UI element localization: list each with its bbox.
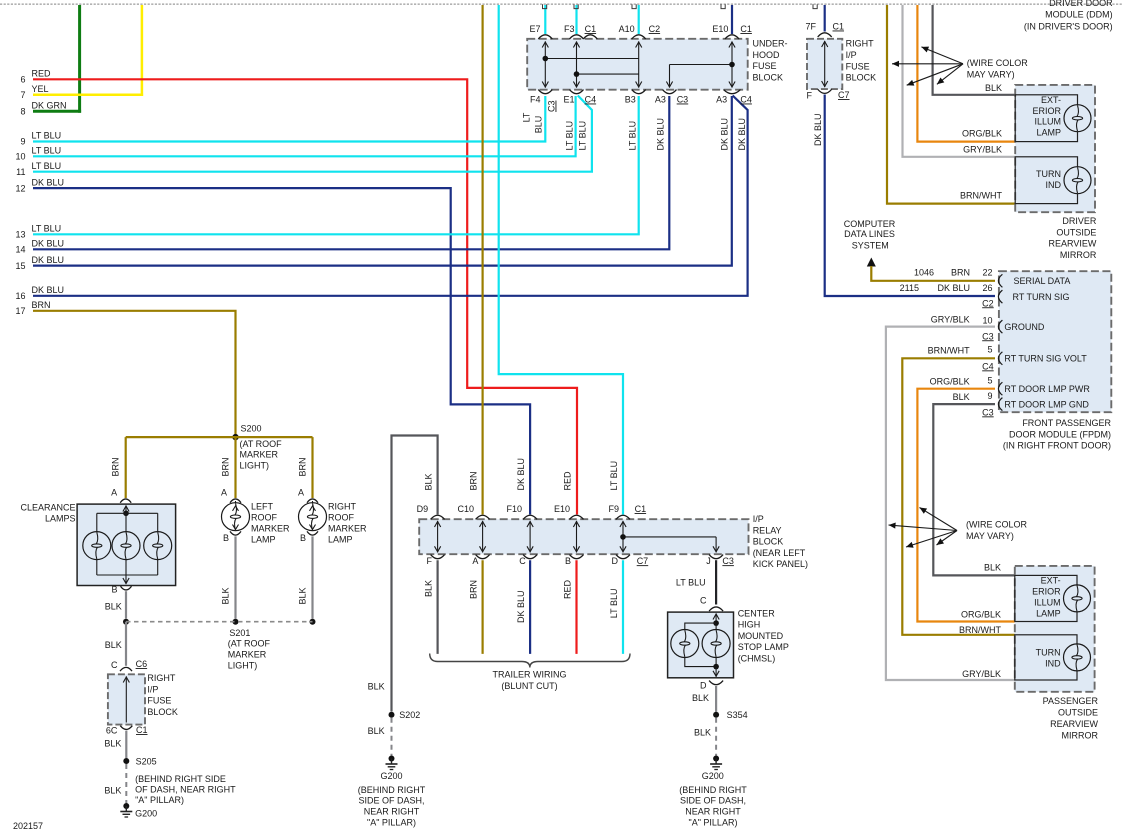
svg-text:6: 6 <box>20 75 25 85</box>
svg-text:(BEHIND RIGHT: (BEHIND RIGHT <box>358 785 426 795</box>
svg-text:IND: IND <box>1046 180 1062 190</box>
svg-text:B3: B3 <box>625 95 636 105</box>
svg-text:BLU: BLU <box>534 116 544 134</box>
svg-text:(AT ROOF: (AT ROOF <box>228 639 271 649</box>
svg-text:BLK: BLK <box>984 562 1001 572</box>
svg-text:MIRROR: MIRROR <box>1062 730 1099 740</box>
svg-text:C3: C3 <box>982 407 994 417</box>
svg-text:BLK: BLK <box>104 739 121 749</box>
svg-text:(IN RIGHT FRONT DOOR): (IN RIGHT FRONT DOOR) <box>1003 441 1111 451</box>
svg-text:E7: E7 <box>529 24 540 34</box>
svg-text:A3: A3 <box>716 95 727 105</box>
svg-text:BRN/WHT: BRN/WHT <box>959 625 1001 635</box>
svg-text:TRAILER WIRING: TRAILER WIRING <box>492 670 566 680</box>
svg-text:LAMPS: LAMPS <box>45 514 76 524</box>
svg-text:B: B <box>565 556 571 566</box>
svg-text:BRN: BRN <box>111 457 121 476</box>
svg-text:(BEHIND RIGHT SIDE: (BEHIND RIGHT SIDE <box>135 774 226 784</box>
svg-text:C3: C3 <box>982 331 994 341</box>
svg-text:7F: 7F <box>805 22 816 32</box>
svg-text:F: F <box>807 91 813 101</box>
svg-text:26: 26 <box>982 283 992 293</box>
svg-text:C3: C3 <box>547 101 557 113</box>
svg-text:C3: C3 <box>722 556 734 566</box>
svg-text:GRY/BLK: GRY/BLK <box>962 669 1001 679</box>
svg-text:"A" PILLAR): "A" PILLAR) <box>367 818 416 828</box>
svg-text:DK BLU: DK BLU <box>32 255 65 265</box>
svg-text:C1: C1 <box>833 22 845 32</box>
svg-text:ILLUM: ILLUM <box>1034 117 1061 127</box>
svg-text:10: 10 <box>15 152 25 162</box>
svg-text:RIGHT: RIGHT <box>147 673 176 683</box>
svg-text:BLK: BLK <box>298 587 308 604</box>
svg-text:BLK: BLK <box>424 473 434 490</box>
svg-text:S202: S202 <box>399 710 420 720</box>
svg-text:MAY VARY): MAY VARY) <box>967 70 1015 80</box>
svg-text:F3: F3 <box>564 24 575 34</box>
svg-text:S200: S200 <box>241 424 262 434</box>
svg-text:DRIVER DOOR: DRIVER DOOR <box>1049 0 1113 8</box>
svg-text:BLOCK: BLOCK <box>846 73 877 83</box>
svg-text:17: 17 <box>15 306 25 316</box>
svg-text:C7: C7 <box>637 556 649 566</box>
svg-text:DK BLU: DK BLU <box>516 458 526 491</box>
svg-text:ORG/BLK: ORG/BLK <box>930 376 970 386</box>
svg-text:202157: 202157 <box>13 821 43 831</box>
svg-text:COMPUTER: COMPUTER <box>844 219 896 229</box>
svg-text:MODULE (DDM): MODULE (DDM) <box>1045 10 1113 20</box>
svg-text:YEL: YEL <box>32 84 49 94</box>
svg-text:REARVIEW: REARVIEW <box>1050 719 1098 729</box>
svg-text:DK BLU: DK BLU <box>813 113 823 146</box>
svg-text:12: 12 <box>15 183 25 193</box>
svg-text:LAMP: LAMP <box>1036 608 1061 618</box>
svg-text:LAMP: LAMP <box>1036 128 1061 138</box>
svg-text:GROUND: GROUND <box>1004 322 1044 332</box>
svg-text:RED: RED <box>563 471 573 491</box>
svg-text:OF DASH, NEAR RIGHT: OF DASH, NEAR RIGHT <box>135 784 236 794</box>
svg-text:NEAR RIGHT: NEAR RIGHT <box>685 807 741 817</box>
svg-text:15: 15 <box>15 261 25 271</box>
svg-text:S201: S201 <box>229 628 250 638</box>
svg-text:TURN: TURN <box>1036 648 1061 658</box>
svg-text:EXT-: EXT- <box>1041 95 1061 105</box>
svg-text:LT: LT <box>522 112 532 122</box>
svg-text:HOOD: HOOD <box>753 50 781 60</box>
svg-text:BLOCK: BLOCK <box>147 707 178 717</box>
svg-text:LT BLU: LT BLU <box>565 121 575 151</box>
svg-text:C: C <box>111 660 118 670</box>
svg-text:C4: C4 <box>740 95 752 105</box>
svg-text:10: 10 <box>982 315 992 325</box>
svg-text:DK BLU: DK BLU <box>32 285 65 295</box>
svg-text:LAMP: LAMP <box>251 535 276 545</box>
svg-text:(BEHIND RIGHT: (BEHIND RIGHT <box>679 785 747 795</box>
svg-text:11: 11 <box>16 167 25 177</box>
svg-text:C2: C2 <box>982 298 994 308</box>
svg-text:BLK: BLK <box>221 587 231 604</box>
svg-text:LT BLU: LT BLU <box>676 578 706 588</box>
svg-text:B: B <box>300 533 306 543</box>
svg-text:BLK: BLK <box>694 728 711 738</box>
svg-text:OUTSIDE: OUTSIDE <box>1058 707 1098 717</box>
svg-text:BLK: BLK <box>105 602 122 612</box>
svg-text:DK BLU: DK BLU <box>516 591 526 624</box>
svg-text:DK GRN: DK GRN <box>32 100 67 110</box>
svg-text:MARKER: MARKER <box>328 524 367 534</box>
svg-text:9: 9 <box>987 391 992 401</box>
svg-text:GRY/BLK: GRY/BLK <box>963 144 1002 154</box>
svg-text:G200: G200 <box>135 808 157 818</box>
svg-text:C7: C7 <box>838 90 850 100</box>
svg-text:C6: C6 <box>136 659 148 669</box>
svg-text:16: 16 <box>15 291 25 301</box>
svg-text:KICK PANEL): KICK PANEL) <box>753 559 808 569</box>
svg-text:A: A <box>298 487 304 497</box>
svg-text:LT BLU: LT BLU <box>32 161 62 171</box>
svg-text:REARVIEW: REARVIEW <box>1049 239 1097 249</box>
svg-text:MARKER: MARKER <box>228 650 267 660</box>
svg-text:D: D <box>700 681 707 691</box>
svg-text:HIGH: HIGH <box>738 620 761 630</box>
svg-text:6C: 6C <box>106 726 118 736</box>
svg-text:2115: 2115 <box>900 283 919 293</box>
svg-text:BLK: BLK <box>424 580 434 597</box>
svg-text:C2: C2 <box>649 24 661 34</box>
svg-text:DK BLU: DK BLU <box>656 118 666 151</box>
svg-text:A10: A10 <box>619 24 635 34</box>
svg-text:FUSE: FUSE <box>846 61 870 71</box>
svg-text:BRN: BRN <box>951 268 970 278</box>
svg-text:C: C <box>700 595 707 605</box>
svg-text:E10: E10 <box>712 24 728 34</box>
svg-text:BRN: BRN <box>469 580 479 599</box>
svg-text:DK BLU: DK BLU <box>737 118 747 151</box>
svg-text:1046: 1046 <box>914 268 934 278</box>
svg-text:ROOF: ROOF <box>328 513 355 523</box>
svg-text:5: 5 <box>987 345 992 355</box>
svg-text:I/P: I/P <box>846 50 857 60</box>
svg-text:C4: C4 <box>982 361 994 371</box>
svg-text:B: B <box>111 585 117 595</box>
svg-text:C1: C1 <box>635 504 647 514</box>
svg-text:(WIRE COLOR: (WIRE COLOR <box>967 58 1029 68</box>
svg-text:RT DOOR LMP PWR: RT DOOR LMP PWR <box>1004 384 1090 394</box>
svg-text:IND: IND <box>1045 659 1061 669</box>
svg-text:G200: G200 <box>380 771 402 781</box>
svg-text:BRN: BRN <box>221 457 231 476</box>
svg-text:LT BLU: LT BLU <box>32 146 62 156</box>
svg-text:LT BLU: LT BLU <box>609 461 619 491</box>
svg-text:RED: RED <box>32 69 52 79</box>
svg-text:B: B <box>223 533 229 543</box>
svg-text:PASSENGER: PASSENGER <box>1043 696 1099 706</box>
svg-text:7: 7 <box>20 90 25 100</box>
svg-text:C1: C1 <box>585 24 597 34</box>
svg-text:"A" PILLAR): "A" PILLAR) <box>689 818 738 828</box>
svg-text:LT BLU: LT BLU <box>609 589 619 619</box>
svg-text:C: C <box>519 556 526 566</box>
svg-text:SIDE OF DASH,: SIDE OF DASH, <box>358 796 424 806</box>
svg-text:BLK: BLK <box>105 640 122 650</box>
svg-text:BRN: BRN <box>298 457 308 476</box>
svg-text:DATA LINES: DATA LINES <box>844 229 895 239</box>
svg-text:RT DOOR LMP GND: RT DOOR LMP GND <box>1004 399 1089 409</box>
svg-text:ERIOR: ERIOR <box>1032 586 1061 596</box>
svg-text:(CHMSL): (CHMSL) <box>738 654 776 664</box>
svg-text:MIRROR: MIRROR <box>1060 250 1097 260</box>
svg-text:DK BLU: DK BLU <box>32 239 65 249</box>
svg-text:(WIRE COLOR: (WIRE COLOR <box>966 519 1028 529</box>
svg-text:22: 22 <box>982 268 992 278</box>
svg-text:RT TURN SIG: RT TURN SIG <box>1013 292 1070 302</box>
svg-text:CENTER: CENTER <box>738 608 776 618</box>
svg-text:F4: F4 <box>530 95 541 105</box>
svg-text:8: 8 <box>20 106 25 116</box>
svg-text:13: 13 <box>15 230 25 240</box>
svg-text:S354: S354 <box>727 710 748 720</box>
svg-text:BRN: BRN <box>32 300 51 310</box>
svg-text:LT BLU: LT BLU <box>628 121 638 151</box>
svg-text:ERIOR: ERIOR <box>1032 106 1061 116</box>
svg-text:OUTSIDE: OUTSIDE <box>1056 227 1096 237</box>
svg-text:DRIVER: DRIVER <box>1062 216 1097 226</box>
svg-text:(NEAR LEFT: (NEAR LEFT <box>753 548 806 558</box>
svg-text:BLK: BLK <box>953 392 970 402</box>
svg-text:C4: C4 <box>585 95 597 105</box>
svg-text:BLK: BLK <box>104 785 121 795</box>
svg-text:I/P: I/P <box>147 684 158 694</box>
svg-text:LT BLU: LT BLU <box>32 131 62 141</box>
svg-text:EXT-: EXT- <box>1041 576 1061 586</box>
svg-text:A3: A3 <box>655 95 666 105</box>
svg-text:5: 5 <box>987 376 992 386</box>
svg-text:SERIAL DATA: SERIAL DATA <box>1014 276 1071 286</box>
svg-text:CLEARANCE: CLEARANCE <box>20 503 75 513</box>
svg-text:(BLUNT CUT): (BLUNT CUT) <box>501 681 557 691</box>
svg-text:(AT ROOF: (AT ROOF <box>240 439 283 449</box>
svg-text:A: A <box>221 487 227 497</box>
svg-text:S205: S205 <box>136 756 157 766</box>
svg-text:C3: C3 <box>677 95 689 105</box>
svg-text:C1: C1 <box>740 24 752 34</box>
svg-text:E10: E10 <box>554 504 570 514</box>
svg-text:MAY VARY): MAY VARY) <box>966 531 1014 541</box>
svg-text:BLK: BLK <box>368 682 385 692</box>
svg-text:ILLUM: ILLUM <box>1034 597 1061 607</box>
svg-text:RIGHT: RIGHT <box>846 39 875 49</box>
svg-text:GRY/BLK: GRY/BLK <box>931 315 970 325</box>
svg-text:F: F <box>427 556 433 566</box>
svg-text:G200: G200 <box>702 771 724 781</box>
svg-text:FUSE: FUSE <box>753 61 777 71</box>
svg-text:BLK: BLK <box>368 726 385 736</box>
svg-text:"A" PILLAR): "A" PILLAR) <box>135 795 184 805</box>
svg-text:BRN: BRN <box>469 471 479 490</box>
svg-text:(IN DRIVER'S DOOR): (IN DRIVER'S DOOR) <box>1024 22 1113 32</box>
svg-text:RT TURN SIG VOLT: RT TURN SIG VOLT <box>1004 354 1087 364</box>
svg-text:DK BLU: DK BLU <box>937 283 970 293</box>
svg-text:14: 14 <box>15 245 25 255</box>
svg-text:LEFT: LEFT <box>251 502 274 512</box>
svg-text:D: D <box>612 556 619 566</box>
svg-text:BLK: BLK <box>985 83 1002 93</box>
svg-text:SIDE OF DASH,: SIDE OF DASH, <box>680 796 746 806</box>
svg-text:MARKER: MARKER <box>240 450 279 460</box>
svg-text:TURN: TURN <box>1036 169 1061 179</box>
svg-text:FRONT PASSENGER: FRONT PASSENGER <box>1022 418 1111 428</box>
svg-text:BLOCK: BLOCK <box>753 537 784 547</box>
svg-text:BLK: BLK <box>692 693 709 703</box>
svg-text:NEAR RIGHT: NEAR RIGHT <box>364 807 420 817</box>
svg-text:DK BLU: DK BLU <box>720 118 730 151</box>
svg-text:DK BLU: DK BLU <box>32 177 65 187</box>
svg-text:A: A <box>472 556 478 566</box>
svg-text:C10: C10 <box>457 504 474 514</box>
svg-text:A: A <box>111 487 117 497</box>
svg-text:LAMP: LAMP <box>328 535 353 545</box>
svg-text:9: 9 <box>20 137 25 147</box>
svg-text:ORG/BLK: ORG/BLK <box>961 609 1001 619</box>
svg-text:DOOR MODULE (FPDM): DOOR MODULE (FPDM) <box>1009 429 1111 439</box>
svg-text:C1: C1 <box>136 725 148 735</box>
svg-text:MARKER: MARKER <box>251 524 290 534</box>
svg-text:RIGHT: RIGHT <box>328 502 357 512</box>
svg-text:RELAY: RELAY <box>753 525 782 535</box>
svg-text:F10: F10 <box>506 504 522 514</box>
svg-text:LT BLU: LT BLU <box>578 121 588 151</box>
svg-text:J: J <box>706 556 711 566</box>
svg-text:LIGHT): LIGHT) <box>228 661 258 671</box>
svg-text:FUSE: FUSE <box>147 696 171 706</box>
svg-text:F9: F9 <box>608 504 619 514</box>
svg-text:I/P: I/P <box>753 514 764 524</box>
svg-text:BLOCK: BLOCK <box>753 72 784 82</box>
svg-text:E1: E1 <box>563 95 574 105</box>
svg-text:ORG/BLK: ORG/BLK <box>962 129 1002 139</box>
svg-text:STOP LAMP: STOP LAMP <box>738 642 789 652</box>
svg-text:LT BLU: LT BLU <box>32 224 62 234</box>
svg-text:BRN/WHT: BRN/WHT <box>960 190 1002 200</box>
svg-text:SYSTEM: SYSTEM <box>852 241 889 251</box>
svg-text:UNDER-: UNDER- <box>753 39 788 49</box>
svg-text:RED: RED <box>563 580 573 600</box>
svg-text:D9: D9 <box>417 504 429 514</box>
svg-text:LIGHT): LIGHT) <box>240 461 270 471</box>
svg-text:ROOF: ROOF <box>251 513 278 523</box>
svg-text:BRN/WHT: BRN/WHT <box>928 345 970 355</box>
svg-text:MOUNTED: MOUNTED <box>738 631 784 641</box>
